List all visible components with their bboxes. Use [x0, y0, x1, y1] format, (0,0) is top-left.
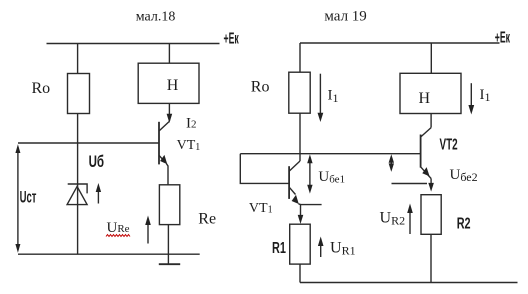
svg-text:+Ек: +Ек: [495, 29, 511, 46]
svg-text:мал.18: мал.18: [136, 10, 176, 25]
svg-text:URe: URe: [107, 220, 130, 236]
svg-text:I2: I2: [186, 116, 197, 132]
svg-text:VT2: VT2: [440, 135, 458, 153]
svg-text:UR1: UR1: [330, 240, 356, 258]
svg-text:Uбе1: Uбе1: [318, 169, 345, 186]
svg-text:I1: I1: [328, 87, 339, 105]
svg-text:Re: Re: [198, 210, 216, 227]
svg-text:Uбе2: Uбе2: [450, 167, 478, 184]
svg-text:VT1: VT1: [249, 201, 273, 216]
svg-text:H: H: [419, 90, 431, 107]
svg-text:R2: R2: [457, 214, 471, 232]
svg-text:мал 19: мал 19: [324, 9, 366, 25]
svg-text:R1: R1: [272, 239, 286, 257]
svg-text:UR2: UR2: [380, 209, 406, 227]
svg-text:Uст: Uст: [20, 188, 37, 207]
svg-text:VT1: VT1: [177, 138, 201, 153]
svg-text:Uб: Uб: [89, 153, 104, 172]
svg-text:I1: I1: [480, 87, 491, 104]
svg-text:Ro: Ro: [32, 80, 51, 97]
svg-text:+Ек: +Ек: [224, 30, 240, 47]
svg-text:Ro: Ro: [251, 79, 270, 96]
svg-text:H: H: [167, 77, 179, 94]
